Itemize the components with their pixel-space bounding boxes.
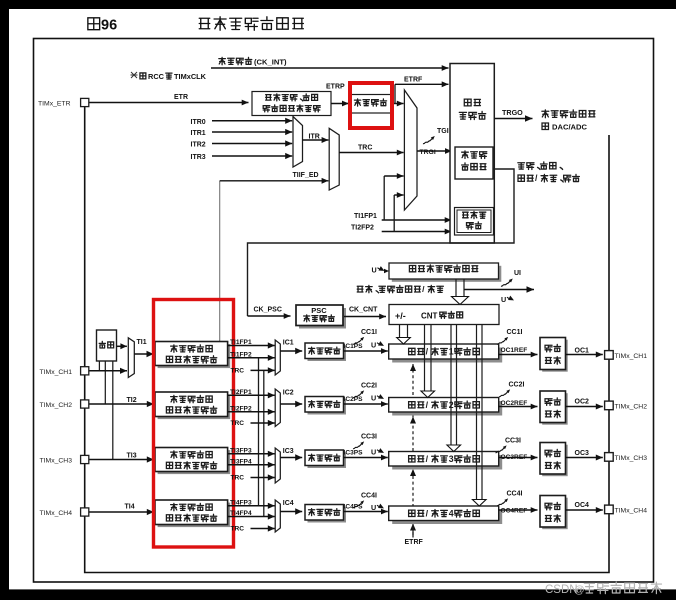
svg-text:U: U xyxy=(501,295,506,304)
svg-text:OC3: OC3 xyxy=(575,450,590,457)
svg-text:TRC: TRC xyxy=(231,526,245,533)
svg-text:TI1: TI1 xyxy=(137,339,147,346)
svg-text:TI1FP1: TI1FP1 xyxy=(230,339,252,346)
svg-text:CC1I: CC1I xyxy=(361,329,377,336)
svg-text:TI2FP1: TI2FP1 xyxy=(230,389,252,396)
svg-text:TRGO: TRGO xyxy=(502,108,523,117)
svg-text:TI3: TI3 xyxy=(127,453,137,460)
svg-text:TIMx_ETR: TIMx_ETR xyxy=(38,101,71,108)
svg-text:4: 4 xyxy=(449,508,454,518)
svg-text:96: 96 xyxy=(101,18,117,34)
svg-text:ETRP: ETRP xyxy=(326,84,345,91)
svg-text:TI2: TI2 xyxy=(127,397,137,404)
svg-text:TI2FP2: TI2FP2 xyxy=(351,225,374,232)
svg-text:TRC: TRC xyxy=(231,420,245,427)
svg-text:TIMx_CH2: TIMx_CH2 xyxy=(40,402,73,409)
svg-text:@: @ xyxy=(574,584,585,596)
svg-text:TRC: TRC xyxy=(231,475,245,482)
svg-text:OC4REF: OC4REF xyxy=(501,508,528,515)
svg-text:IC3PS: IC3PS xyxy=(344,450,364,457)
svg-text:IC1: IC1 xyxy=(283,340,294,347)
svg-text:TIMxCLK: TIMxCLK xyxy=(174,72,207,81)
svg-text:TI4: TI4 xyxy=(125,504,135,511)
svg-text:TI1FP2: TI1FP2 xyxy=(230,351,252,358)
svg-text:TIMx_CH4: TIMx_CH4 xyxy=(615,508,648,515)
svg-text:+/-: +/- xyxy=(395,311,406,321)
svg-text:ITR0: ITR0 xyxy=(191,119,206,126)
svg-text:DAC/ADC: DAC/ADC xyxy=(552,122,588,131)
svg-text:RCC: RCC xyxy=(148,72,165,81)
svg-text:CC4I: CC4I xyxy=(361,493,377,500)
svg-text:OC1: OC1 xyxy=(575,348,590,355)
svg-text:ITR1: ITR1 xyxy=(191,130,206,137)
svg-text:ETRF: ETRF xyxy=(404,77,423,84)
svg-text:TI3FP4: TI3FP4 xyxy=(230,458,252,465)
svg-text:TGI: TGI xyxy=(437,128,449,135)
svg-text:TRC: TRC xyxy=(231,367,245,374)
svg-text:CC2I: CC2I xyxy=(361,383,377,390)
svg-text:CNT: CNT xyxy=(421,312,438,321)
svg-text:CC4I: CC4I xyxy=(507,491,523,498)
svg-text:IC4: IC4 xyxy=(283,500,294,507)
svg-text:IC2PS: IC2PS xyxy=(344,396,364,403)
svg-text:TI3FP3: TI3FP3 xyxy=(230,447,252,454)
svg-text:TI2FP2: TI2FP2 xyxy=(230,405,252,412)
svg-text:TRGI: TRGI xyxy=(420,149,436,156)
svg-text:TIMx_CH2: TIMx_CH2 xyxy=(615,404,648,411)
svg-text:TI4FP4: TI4FP4 xyxy=(230,510,252,517)
svg-text:CSDN: CSDN xyxy=(545,584,578,596)
svg-text:TRC: TRC xyxy=(358,145,372,152)
svg-text:UI: UI xyxy=(514,270,521,277)
svg-text:TIMx_CH1: TIMx_CH1 xyxy=(40,369,73,376)
svg-text:CC1I: CC1I xyxy=(507,329,523,336)
svg-text:U: U xyxy=(371,448,376,457)
svg-text:TIMx_CH1: TIMx_CH1 xyxy=(615,353,648,360)
svg-text:ITR2: ITR2 xyxy=(191,142,206,149)
svg-text:TIMx_CH4: TIMx_CH4 xyxy=(40,510,73,517)
svg-text:CC2I: CC2I xyxy=(509,382,525,389)
svg-text:TIMx_CH3: TIMx_CH3 xyxy=(615,455,648,462)
svg-text:U: U xyxy=(371,503,376,512)
svg-text:ETRF: ETRF xyxy=(405,539,424,546)
svg-text:OC2: OC2 xyxy=(575,399,590,406)
svg-text:CC3I: CC3I xyxy=(505,438,521,445)
svg-text:TI1FP1: TI1FP1 xyxy=(354,213,377,220)
svg-text:U: U xyxy=(371,394,376,403)
svg-text:IC3: IC3 xyxy=(283,448,294,455)
svg-text:OC4: OC4 xyxy=(575,502,590,509)
svg-text:IC2: IC2 xyxy=(283,389,294,396)
svg-text:TI4FP3: TI4FP3 xyxy=(230,499,252,506)
svg-text:TIIF_ED: TIIF_ED xyxy=(293,172,319,179)
svg-text:ITR3: ITR3 xyxy=(191,154,206,161)
svg-text:OC1REF: OC1REF xyxy=(501,347,528,354)
svg-text:CK_PSC: CK_PSC xyxy=(254,307,282,314)
svg-text:(CK_INT): (CK_INT) xyxy=(254,57,287,66)
svg-text:TIMx_CH3: TIMx_CH3 xyxy=(40,458,73,465)
svg-text:PSC: PSC xyxy=(311,306,327,315)
svg-text:U: U xyxy=(371,341,376,350)
svg-text:U: U xyxy=(372,266,377,275)
svg-text:3: 3 xyxy=(449,454,454,464)
svg-text:CK_CNT: CK_CNT xyxy=(349,307,378,314)
svg-text:CC3I: CC3I xyxy=(361,434,377,441)
svg-text:ETR: ETR xyxy=(174,94,188,101)
